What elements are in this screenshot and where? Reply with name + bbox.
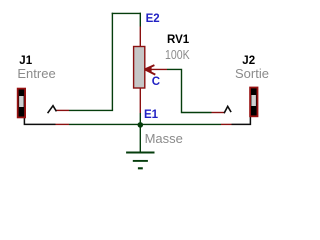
junction node E1: [138, 122, 144, 128]
wire: ground bus E1 (green middle): [69, 123, 221, 125]
wire: left vertical E2 net: [111, 13, 113, 111]
label RV1: [167, 35, 189, 47]
wire: vertical from top corner down to pot (green part): [139, 13, 141, 27]
J2 tip contact caret: [224, 106, 231, 113]
label J2: [242, 56, 255, 68]
label J1: [19, 56, 32, 68]
wire: J1 sleeve black wire: [24, 117, 55, 125]
node E2: [146, 14, 160, 26]
label Masse: [145, 132, 183, 145]
potentiometer RV1 wiper arrow: [145, 65, 155, 75]
potentiometer RV1 body: [134, 47, 145, 89]
J1 tip contact caret: [48, 106, 57, 114]
wire: top horizontal E2 net: [112, 12, 141, 14]
label Entree: [17, 67, 55, 80]
node E1: [144, 110, 158, 122]
pin: J2 sleeve pin stub (red): [221, 123, 232, 125]
pin: J1 tip pin stub (red): [56, 109, 70, 111]
label Sortie: [235, 67, 269, 80]
pin: RV1 bottom pin (red): [139, 88, 141, 113]
node C: [152, 77, 160, 89]
ground symbol (Masse): [126, 152, 154, 154]
pin: RV1 top pin (red): [139, 27, 141, 48]
label 100K: [165, 48, 190, 61]
pin: J1 sleeve pin stub (red): [56, 123, 70, 125]
wire: left horizontal to J1 tip: [69, 109, 113, 111]
wire: junction to ground: [139, 124, 141, 152]
wire: pot bottom to junction (green): [139, 113, 141, 124]
pin: J2 tip pin stub (red): [212, 112, 225, 114]
connector J1 body: [18, 89, 25, 118]
wire: wiper to J2 tip (green): [167, 69, 212, 112]
connector J2 body: [250, 88, 257, 117]
wire: J2 sleeve black wire: [232, 116, 251, 125]
pin: RV1 wiper pin (red): [145, 68, 167, 70]
